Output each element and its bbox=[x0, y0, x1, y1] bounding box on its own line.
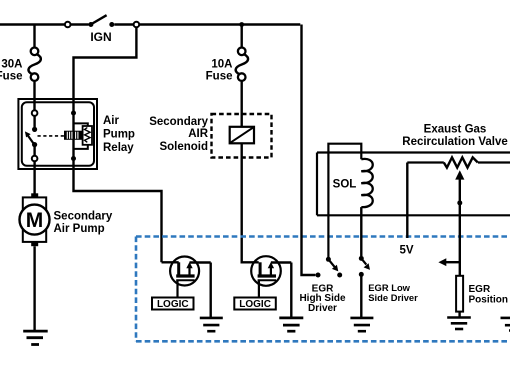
ground Q1 source bbox=[200, 318, 223, 331]
motor M1 secondary air pump bbox=[20, 193, 50, 246]
relay box outer bbox=[18, 99, 97, 169]
svg-text:5V: 5V bbox=[400, 244, 414, 256]
label EGR Low Side Driver bbox=[368, 282, 418, 303]
svg-text:Relay: Relay bbox=[103, 142, 134, 154]
solenoid SOL bracket bbox=[328, 144, 361, 259]
wire sensor to ground bbox=[458, 312, 460, 318]
wire relay switch to motor bbox=[33, 162, 35, 194]
svg-text:SOL: SOL bbox=[333, 179, 357, 191]
label Air Pump Relay bbox=[103, 115, 135, 154]
wire 10A fuse drop bbox=[240, 25, 242, 48]
node relay coil bottom bbox=[71, 156, 76, 161]
label Secondary Air Pump bbox=[54, 210, 113, 234]
wire 5V reference bbox=[406, 163, 408, 239]
svg-text:Air Pump: Air Pump bbox=[54, 223, 105, 235]
node ignition junction bbox=[134, 22, 140, 28]
wire rail to high side driver bbox=[302, 25, 316, 276]
relay resistor bracket wires bbox=[74, 123, 88, 148]
svg-text:Solenoid: Solenoid bbox=[159, 141, 208, 153]
ground Q2 source bbox=[279, 318, 303, 331]
svg-text:Secondary: Secondary bbox=[149, 116, 208, 128]
label Exaust Gas Recirculation Valve bbox=[402, 124, 507, 148]
wire fuse to solenoid bbox=[240, 81, 242, 127]
solenoid SOL coil bbox=[361, 159, 372, 207]
ground partial right edge bbox=[501, 318, 510, 331]
node relay coil top bbox=[71, 111, 76, 116]
ground EGR position sensor bbox=[447, 318, 471, 330]
PCM dashed boundary box bbox=[136, 237, 510, 342]
wiper signal arrow into PCM bbox=[438, 258, 459, 266]
wire relay coil to PCM driver bbox=[74, 169, 162, 262]
svg-text:Fuse: Fuse bbox=[0, 71, 23, 83]
wire IGN drop to relay coil bbox=[74, 27, 137, 113]
svg-text:LOGIC: LOGIC bbox=[239, 299, 271, 310]
wire Q2 gate bbox=[258, 280, 260, 297]
fuse 10A bbox=[206, 48, 248, 83]
svg-text:Recirculation Valve: Recirculation Valve bbox=[402, 136, 507, 148]
fuse 30A bbox=[0, 48, 41, 83]
wire fuse to relay bbox=[33, 81, 35, 111]
EGR pot resistor row bbox=[407, 157, 510, 167]
logic box 2 bbox=[234, 298, 275, 311]
logic box 1 bbox=[152, 298, 194, 311]
svg-text:Fuse: Fuse bbox=[206, 71, 233, 83]
relay box inner rounded bbox=[22, 102, 94, 166]
wire low side to ground bbox=[360, 274, 362, 317]
relay switch contacts bbox=[32, 110, 38, 161]
svg-text:Driver: Driver bbox=[308, 303, 337, 314]
label EGR High Side Driver bbox=[299, 283, 346, 314]
svg-text:M: M bbox=[26, 209, 44, 232]
svg-text:Secondary: Secondary bbox=[54, 210, 113, 222]
transistor Q1 air pump relay driver bbox=[162, 257, 211, 286]
relay linkage dashed bbox=[38, 135, 65, 137]
switch EGR high side driver bbox=[316, 257, 343, 278]
svg-text:10A: 10A bbox=[211, 59, 232, 71]
switch EGR low side driver bbox=[359, 256, 370, 277]
relay resistor R bbox=[83, 126, 92, 145]
svg-text:30A: 30A bbox=[1, 59, 22, 71]
wire relay coil terminal vertical bbox=[72, 113, 74, 169]
svg-text:EGR: EGR bbox=[469, 284, 491, 295]
relay coil winding bbox=[65, 131, 82, 139]
EGR pot wiper arrow bbox=[455, 170, 464, 276]
svg-text:LOGIC: LOGIC bbox=[157, 299, 189, 310]
wire Q1 source to ground bbox=[209, 263, 211, 318]
label Secondary AIR Solenoid bbox=[149, 116, 209, 153]
wire Q2 source to ground bbox=[290, 263, 292, 318]
svg-text:Side Driver: Side Driver bbox=[368, 292, 418, 303]
svg-text:IGN: IGN bbox=[90, 30, 111, 44]
secondary AIR solenoid dashed box bbox=[212, 114, 272, 158]
wire Q1 gate bbox=[176, 280, 178, 297]
EGR position sensor resistor bbox=[456, 276, 463, 312]
switch IGN bbox=[88, 15, 114, 44]
ground low side driver bbox=[350, 318, 373, 331]
wire battery feed rail top bbox=[0, 23, 300, 25]
svg-text:Exaust Gas: Exaust Gas bbox=[424, 124, 487, 136]
EGR valve box outline bbox=[317, 153, 510, 216]
wire SOL to low side driver bbox=[360, 207, 362, 256]
node battery junction left bbox=[65, 22, 71, 28]
node wiper junction bbox=[457, 200, 462, 205]
svg-text:AIR: AIR bbox=[188, 128, 209, 140]
node 10A fuse junction bbox=[239, 22, 244, 27]
wire 30A fuse drop bbox=[33, 25, 35, 48]
label EGR Position bbox=[469, 284, 508, 306]
svg-text:Air: Air bbox=[103, 115, 120, 127]
wire motor to ground bbox=[33, 246, 35, 331]
solenoid valve symbol bbox=[230, 127, 254, 144]
transistor Q2 AIR solenoid driver bbox=[251, 256, 291, 286]
wire solenoid to PCM driver bbox=[242, 143, 259, 262]
svg-text:Pump: Pump bbox=[103, 129, 135, 141]
ground below motor bbox=[23, 331, 48, 344]
svg-text:Position: Position bbox=[469, 294, 508, 305]
relay switch blade with arrow bbox=[25, 131, 35, 145]
